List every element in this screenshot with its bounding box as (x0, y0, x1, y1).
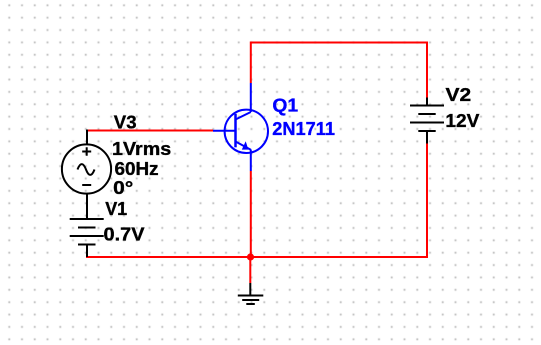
svg-text:12V: 12V (445, 111, 479, 131)
svg-text:60Hz: 60Hz (115, 159, 159, 179)
svg-text:2N1711: 2N1711 (272, 119, 335, 139)
svg-text:V1: V1 (105, 199, 127, 219)
svg-text:Q1: Q1 (272, 96, 298, 116)
svg-text:V2: V2 (446, 85, 472, 105)
svg-text:0°: 0° (113, 178, 133, 198)
svg-text:V3: V3 (114, 113, 137, 133)
svg-text:0.7V: 0.7V (104, 225, 145, 245)
svg-text:1Vrms: 1Vrms (112, 139, 171, 159)
